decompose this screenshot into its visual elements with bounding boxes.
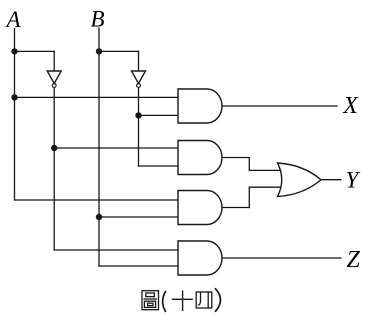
wire AND3 output horizontal: [222, 207, 250, 209]
wire inverter U2 input vertical: [138, 51, 140, 71]
svg-text:X: X: [342, 93, 359, 119]
wire A to AND3 top input: [15, 199, 179, 201]
wire AND2 output step vertical: [248, 158, 250, 171]
wire A to AND1 top input: [15, 96, 179, 98]
wire inverter U1 output vertical (A' net): [53, 87, 55, 250]
svg-text:B: B: [91, 7, 105, 32]
AND gate G2 (A'·B'): [178, 141, 222, 175]
caption glyph 圖: [142, 291, 159, 310]
AND gate G3 (A·B): [178, 191, 222, 225]
wire B stem vertical: [98, 28, 100, 266]
wire AND1 output to X: [222, 105, 337, 107]
wire A to inverter U1 horizontal: [15, 50, 55, 52]
wire AND3 output step vertical: [248, 187, 250, 207]
inverter U1 (A'): [47, 71, 61, 87]
junction dot on B at inverter tap: [96, 48, 102, 54]
caption close parenthesis: [215, 288, 221, 312]
wire A' to AND4 top input: [54, 249, 178, 251]
AND gate G4 (Z = A'·B): [178, 241, 222, 275]
wire inverter U2 output vertical (B' net): [138, 87, 140, 166]
wire B to inverter U2 horizontal: [99, 50, 139, 52]
wire B to AND3 bottom input: [99, 216, 178, 218]
wire B' to AND1 bottom input: [139, 114, 179, 116]
wire OR gate bottom input: [249, 186, 281, 188]
caption glyph 十: [172, 291, 193, 312]
AND gate G1 (X = A·B'): [178, 89, 222, 123]
wire OR gate top input: [249, 169, 281, 171]
junction dot on A at inverter tap: [11, 48, 17, 54]
wire AND2 output horizontal: [222, 157, 250, 159]
wire OR output to Y: [321, 179, 341, 181]
wire inverter U1 input vertical: [53, 51, 55, 71]
junction dot on B' at AND1 tap: [135, 112, 141, 118]
svg-text:Z: Z: [347, 247, 361, 273]
junction dot on B at AND3 tap: [96, 214, 102, 220]
wire B' to AND2 bottom input: [139, 165, 179, 167]
caption open parenthesis: [163, 291, 166, 312]
wire A stem vertical: [14, 29, 16, 201]
wire AND4 output to Z: [222, 257, 341, 259]
junction dot on A' at AND2 tap: [51, 145, 57, 151]
wire B to AND4 bottom input: [99, 265, 178, 267]
caption glyph 四: [196, 292, 212, 308]
svg-text:Y: Y: [346, 168, 361, 193]
wire A' to AND2 top input: [54, 147, 178, 149]
svg-text:A: A: [5, 7, 22, 32]
OR gate G5 (Y): [278, 163, 322, 197]
junction dot on A at AND1 tap: [11, 94, 17, 100]
inverter U2 (B'): [132, 71, 146, 87]
